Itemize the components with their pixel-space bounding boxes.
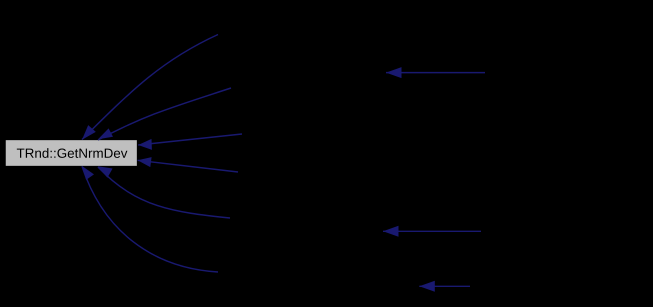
edge caller5 curve bottom inner xyxy=(98,166,230,218)
edge caller3 straight upper xyxy=(138,134,242,150)
edge caller6 curve bottom outer xyxy=(82,166,218,272)
edge caller4 straight lower xyxy=(138,157,238,172)
edge caller1 curve top outer xyxy=(82,35,218,140)
edge second-level arrow C xyxy=(419,281,470,292)
edge second-level arrow A xyxy=(386,67,485,78)
node TRnd::GetNrmDev xyxy=(5,140,137,167)
edge second-level arrow B xyxy=(383,226,481,237)
edge caller2 curve top inner xyxy=(98,88,231,140)
